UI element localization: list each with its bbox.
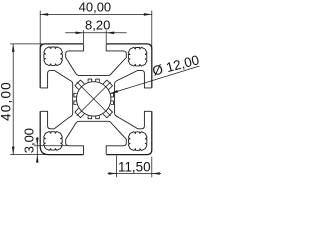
- dim 11,50: dimension line: [108, 173, 162, 175]
- svg-text:40,00: 40,00: [79, 0, 112, 15]
- dim 3,00: extension line: [34, 145, 66, 147]
- dim 8,20: extension lines: [83, 30, 85, 43]
- dim 40,00 top: dimension line: [40, 13, 152, 15]
- diagonal centerlines X: [77, 82, 111, 116]
- corner screw channel bottom-right: [128, 132, 147, 151]
- leader arrow: [110, 90, 118, 94]
- dim 8,20: arrows: [76, 32, 84, 35]
- dim 40,00 left: extension lines: [10, 43, 48, 45]
- top T-slot cavity: [66, 44, 127, 75]
- corner screw channel bottom-left: [44, 132, 63, 151]
- svg-text:40,00: 40,00: [0, 81, 14, 121]
- bore grip teeth: [74, 79, 114, 119]
- dim 11,50: arrows: [109, 172, 117, 175]
- right T-slot cavity: [115, 70, 152, 128]
- profile outer contour: top-right corner rim: [106, 44, 152, 88]
- dim 8,20: dimension line: [65, 32, 126, 34]
- dim 40,00 left: arrows: [12, 44, 15, 52]
- dim 40,00 top: extension lines: [39, 11, 41, 49]
- leader line D12: [110, 66, 200, 94]
- svg-text:8,20: 8,20: [85, 18, 110, 33]
- bottom T-slot cavity: [66, 121, 127, 154]
- bore corner channels: [75, 80, 113, 118]
- profile outer contour: top-left corner rim: [40, 44, 83, 88]
- profile outer contour: bottom-right corner rim: [106, 111, 152, 154]
- left T-slot cavity: [41, 70, 73, 128]
- corner screw channel top-right: [128, 47, 147, 66]
- center bore circle D12: [77, 82, 111, 116]
- dim 3,00: dimension line: [36, 137, 38, 161]
- profile outer contour: bottom-left corner rim (large radius): [40, 111, 83, 154]
- svg-text:3,00: 3,00: [22, 128, 37, 153]
- dim 40,00 left: dimension line: [12, 44, 14, 155]
- svg-text:Ø 12,00: Ø 12,00: [151, 52, 200, 78]
- corner screw channel top-left: [44, 47, 63, 66]
- dim 11,50: extension lines: [116, 156, 118, 178]
- dim 40,00 top: arrows: [40, 13, 48, 16]
- dim 3,00: arrows: [36, 138, 39, 146]
- svg-text:11,50: 11,50: [118, 160, 151, 175]
